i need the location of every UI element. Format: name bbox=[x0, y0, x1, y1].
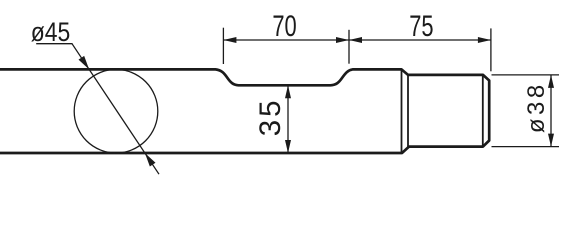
svg-text:ø45: ø45 bbox=[31, 17, 71, 47]
svg-text:70: 70 bbox=[272, 9, 296, 43]
svg-text:75: 75 bbox=[409, 9, 433, 43]
svg-text:ø38: ø38 bbox=[523, 81, 550, 133]
svg-text:35: 35 bbox=[254, 97, 287, 136]
